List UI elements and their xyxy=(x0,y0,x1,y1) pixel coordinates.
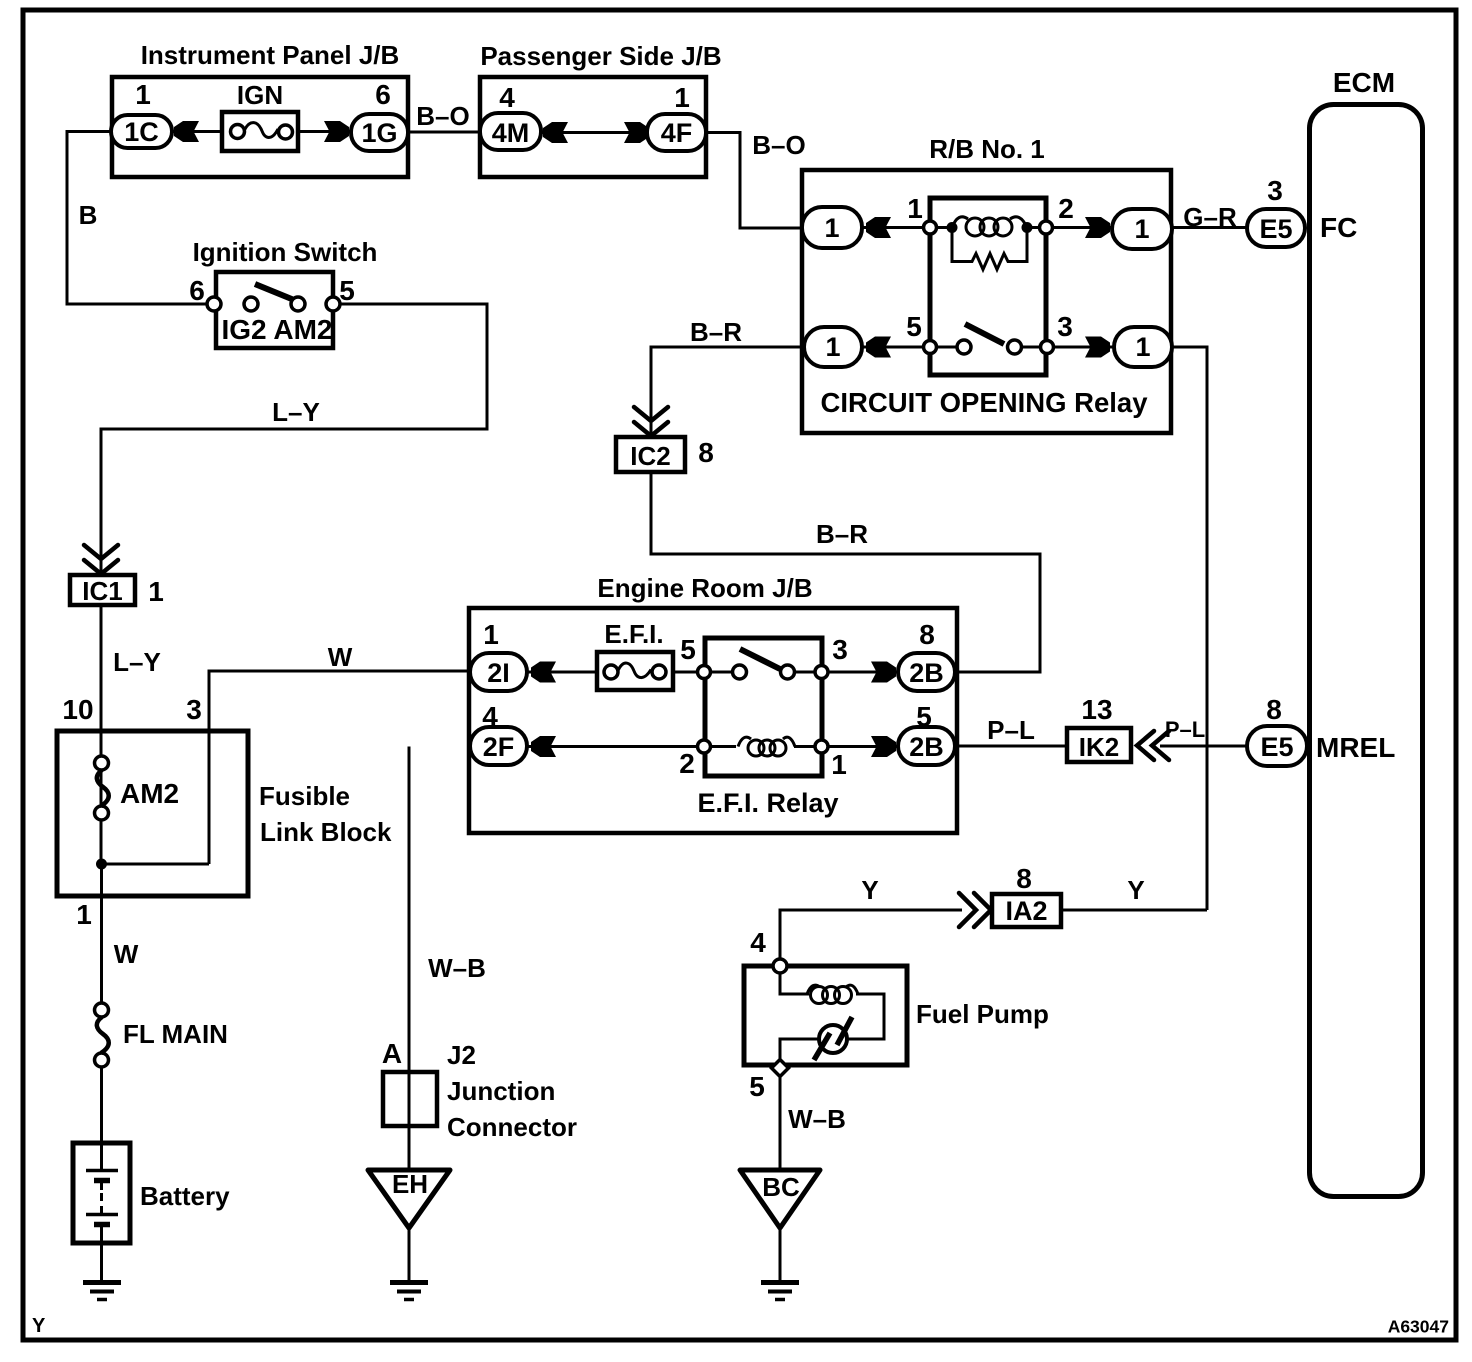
fuse IGN element xyxy=(231,125,245,139)
battery internal wire top xyxy=(100,1145,103,1169)
wire Y from IA2 to relay wire xyxy=(1061,909,1207,912)
arrow at 2B bottom xyxy=(871,736,896,757)
EFI relay node pin 1 xyxy=(815,740,828,753)
Passenger Side J/B box xyxy=(480,77,706,177)
junction connector J2 box xyxy=(383,1072,437,1126)
svg-text:2: 2 xyxy=(679,748,695,779)
svg-text:8: 8 xyxy=(919,619,935,650)
ground below battery xyxy=(83,1280,121,1285)
arrow at R/B bottom-right oval xyxy=(1085,337,1110,358)
relay node pin 2 xyxy=(1040,221,1053,234)
svg-text:4: 4 xyxy=(499,82,515,113)
arrow at 2I xyxy=(531,662,556,683)
relay switch wires xyxy=(936,346,957,349)
svg-text:IG2 AM2: IG2 AM2 xyxy=(222,314,333,345)
EFI relay coil wires xyxy=(711,745,736,748)
svg-text:Engine Room J/B: Engine Room J/B xyxy=(597,573,812,603)
fuel pump motor circle xyxy=(819,1025,847,1053)
svg-text:13: 13 xyxy=(1081,694,1112,725)
svg-text:4: 4 xyxy=(750,927,766,958)
arrow at 1C xyxy=(174,121,199,142)
svg-text:Junction: Junction xyxy=(447,1076,555,1106)
svg-text:Battery: Battery xyxy=(140,1181,230,1211)
svg-text:E5: E5 xyxy=(1259,214,1292,244)
connector IK2 box xyxy=(1067,728,1131,762)
connector 2I xyxy=(470,653,527,691)
connector oval R/B top-left xyxy=(802,207,862,248)
svg-text:J2: J2 xyxy=(447,1040,476,1070)
svg-text:B: B xyxy=(79,200,98,230)
arrow at 1G xyxy=(324,121,349,142)
wire B from 1C to ignition switch pin 6 xyxy=(67,132,210,305)
wire B-R from R/B bottom-left oval to IC2 xyxy=(651,347,804,437)
fuel pump pin 5 node diamond xyxy=(772,1060,789,1077)
relay coil wire xyxy=(936,226,948,229)
svg-text:E.F.I. Relay: E.F.I. Relay xyxy=(697,788,838,818)
wire EH to ground xyxy=(408,1228,411,1281)
svg-text:3: 3 xyxy=(186,694,202,725)
svg-text:L–Y: L–Y xyxy=(113,647,161,677)
fuel pump internal wire to coil xyxy=(780,972,809,994)
svg-text:B–R: B–R xyxy=(816,519,868,549)
svg-text:IGN: IGN xyxy=(237,80,283,110)
svg-text:W: W xyxy=(328,642,353,672)
battery center ticks xyxy=(100,1183,103,1190)
wire relay pin 3 to R/B bottom-right oval xyxy=(1047,346,1114,349)
svg-text:1C: 1C xyxy=(124,117,159,147)
ground below EH xyxy=(390,1280,428,1285)
svg-text:1: 1 xyxy=(483,619,499,650)
svg-text:1: 1 xyxy=(76,899,92,930)
fusible link FL MAIN symbol xyxy=(95,1003,109,1017)
svg-text:ECM: ECM xyxy=(1333,67,1395,98)
svg-text:E5: E5 xyxy=(1260,732,1293,762)
svg-text:A: A xyxy=(382,1038,402,1069)
arrow at 2B top xyxy=(871,662,896,683)
arrow at 4M xyxy=(543,122,568,143)
connector 2B bottom xyxy=(898,727,955,765)
EFI relay switch contacts xyxy=(733,665,747,679)
motor brush slash left xyxy=(814,1033,830,1060)
svg-text:P–L: P–L xyxy=(987,715,1035,745)
wire 4F to R/B No.1 left oval (B-O) xyxy=(704,133,804,229)
svg-text:P–L: P–L xyxy=(1165,717,1205,742)
fuel pump coil entry arcs xyxy=(807,985,820,994)
fuel pump coil loops xyxy=(811,987,828,1004)
battery wire to ground xyxy=(100,1227,103,1281)
relay coil loops xyxy=(966,218,984,236)
chevron connector left of IA2 xyxy=(959,893,976,927)
fusible link AM2 symbol xyxy=(95,756,109,770)
svg-text:1: 1 xyxy=(824,213,839,243)
svg-text:G–R: G–R xyxy=(1183,202,1237,232)
fuse E.F.I. element xyxy=(604,665,618,679)
Fusible Link Block box xyxy=(57,731,248,896)
svg-text:AM2: AM2 xyxy=(120,778,179,809)
svg-text:1: 1 xyxy=(907,193,923,224)
svg-text:Instrument Panel J/B: Instrument Panel J/B xyxy=(141,40,400,70)
connector E5 MREL xyxy=(1247,726,1307,766)
wire P-L from chevron to ECM E5 MREL xyxy=(1160,745,1249,748)
svg-text:2B: 2B xyxy=(909,658,944,688)
relay node pin 3 xyxy=(1041,341,1054,354)
wire EFI fuse to relay pin 5 xyxy=(671,671,704,674)
svg-text:10: 10 xyxy=(62,694,93,725)
svg-text:Passenger Side J/B: Passenger Side J/B xyxy=(480,41,721,71)
arrow at R/B bottom-left oval xyxy=(866,337,891,358)
connector 4M xyxy=(480,113,541,150)
connector oval R/B top-right xyxy=(1112,209,1172,249)
circuit opening relay inner box xyxy=(930,198,1046,375)
connector IC2 box xyxy=(616,437,685,472)
wire from R/B bottom-right oval down to fuel pump Y line xyxy=(1170,347,1207,910)
chevron connector above IC2 xyxy=(634,407,668,421)
connector oval R/B bottom-left xyxy=(804,327,862,367)
battery box xyxy=(73,1143,130,1243)
wire 1G to 4M (B-O) xyxy=(406,131,482,134)
chevron connector above IC1 xyxy=(84,545,118,559)
wire W-B from 2F to J2 and EH ground xyxy=(408,747,411,1171)
wire Y from fuel pump pin 4 to IA2 xyxy=(780,910,962,966)
wire from junction to pin 1 and FL MAIN xyxy=(100,864,103,1004)
fuel pump wire coil to motor xyxy=(847,994,884,1039)
svg-text:W–B: W–B xyxy=(788,1104,846,1134)
svg-text:1: 1 xyxy=(831,749,847,780)
wire 2I to EFI fuse xyxy=(525,671,599,674)
wire R/B bottom-left oval to relay pin 5 xyxy=(860,346,930,349)
svg-text:B–O: B–O xyxy=(416,101,469,131)
svg-text:Y: Y xyxy=(32,1315,46,1337)
svg-text:1: 1 xyxy=(135,79,151,110)
relay resistor branch xyxy=(952,232,1027,270)
fusible link AM2 wire xyxy=(100,757,103,864)
svg-text:3: 3 xyxy=(1267,175,1283,206)
ground below BC xyxy=(761,1280,799,1285)
svg-text:E.F.I.: E.F.I. xyxy=(604,619,663,649)
wire L-Y from IC1 to fusible link block xyxy=(100,605,103,757)
svg-text:Fusible: Fusible xyxy=(259,781,350,811)
relay switch contacts xyxy=(957,340,971,354)
svg-text:IA2: IA2 xyxy=(1005,896,1047,926)
svg-text:B–R: B–R xyxy=(690,317,742,347)
svg-text:A63047: A63047 xyxy=(1388,1317,1449,1337)
svg-text:6: 6 xyxy=(189,275,205,306)
chevron connector right of IK2 xyxy=(1137,731,1154,760)
svg-text:2F: 2F xyxy=(483,732,515,762)
fuel pump box xyxy=(744,966,907,1065)
svg-text:FC: FC xyxy=(1320,212,1357,243)
EFI relay switch blade xyxy=(740,649,780,669)
svg-text:2B: 2B xyxy=(909,732,944,762)
svg-text:1: 1 xyxy=(825,332,840,362)
Engine Room J/B box xyxy=(469,608,957,833)
R/B No.1 box xyxy=(802,170,1171,433)
connector 4F xyxy=(647,114,706,151)
svg-text:8: 8 xyxy=(698,437,714,468)
wire W-B from fuel pump to BC ground xyxy=(779,1076,782,1170)
svg-text:IC2: IC2 xyxy=(630,441,670,471)
svg-text:IK2: IK2 xyxy=(1079,732,1119,762)
svg-text:1: 1 xyxy=(148,576,164,607)
wire B-R from IC2 down to engine room 2B xyxy=(651,472,1040,672)
wire FL MAIN to battery xyxy=(100,1067,103,1145)
svg-text:Link Block: Link Block xyxy=(260,817,392,847)
ground triangle BC xyxy=(740,1170,820,1228)
connector IA2 box xyxy=(992,894,1061,927)
svg-text:4F: 4F xyxy=(661,118,693,148)
arrow at 2F xyxy=(531,736,556,757)
svg-text:Y: Y xyxy=(1127,875,1144,905)
svg-text:CIRCUIT OPENING Relay: CIRCUIT OPENING Relay xyxy=(820,387,1148,418)
arrow at 4F xyxy=(624,122,649,143)
Ignition Switch box xyxy=(216,272,333,348)
svg-text:5: 5 xyxy=(339,275,355,306)
ground triangle EH xyxy=(368,1170,450,1228)
svg-text:5: 5 xyxy=(680,634,696,665)
svg-text:6: 6 xyxy=(375,79,391,110)
EFI relay coil entry arcs xyxy=(738,737,751,746)
relay node pin 5 xyxy=(924,341,937,354)
connector 1C xyxy=(111,115,172,148)
ignition switch contacts xyxy=(207,297,221,311)
EFI relay node pin 2 xyxy=(698,740,711,753)
svg-text:1: 1 xyxy=(674,82,690,113)
svg-text:W–B: W–B xyxy=(428,953,486,983)
wire BC to ground xyxy=(779,1228,782,1281)
battery plate short 1 xyxy=(94,1178,110,1184)
wire relay pin 1 to 2B bottom xyxy=(821,745,900,748)
connector 1G xyxy=(351,114,408,151)
relay switch blade xyxy=(965,324,1004,344)
wire relay pin 2 to R/B top-right oval xyxy=(1046,226,1114,229)
svg-text:3: 3 xyxy=(832,634,848,665)
fuse E.F.I. box xyxy=(597,652,673,690)
wire P-L from 2B bottom to IK2 xyxy=(953,745,1067,748)
connector IC1 box xyxy=(70,575,135,605)
wire 4M to 4F xyxy=(539,131,649,134)
battery plate short 2 xyxy=(94,1222,110,1228)
svg-text:BC: BC xyxy=(762,1172,800,1202)
fuel pump pin 4 node xyxy=(773,959,787,973)
junction dot right xyxy=(1022,222,1033,233)
EFI relay inner box xyxy=(705,638,822,776)
svg-text:FL MAIN: FL MAIN xyxy=(123,1019,228,1049)
svg-text:1: 1 xyxy=(1134,214,1149,244)
svg-text:5: 5 xyxy=(906,311,922,342)
svg-text:B–O: B–O xyxy=(752,130,805,160)
svg-text:L–Y: L–Y xyxy=(272,397,320,427)
svg-text:Fuel Pump: Fuel Pump xyxy=(916,999,1049,1029)
svg-text:1: 1 xyxy=(1135,332,1150,362)
wire R/B top-left oval to relay pin 1 xyxy=(860,226,930,229)
Instrument Panel J/B box xyxy=(112,77,408,177)
wire IGN fuse to 1G xyxy=(297,130,353,133)
fuel pump wire motor to pin 5 xyxy=(780,1039,819,1062)
fuse IGN box xyxy=(222,112,298,151)
EFI relay node pin 5 xyxy=(698,666,711,679)
svg-text:Connector: Connector xyxy=(447,1112,577,1142)
connector E5 FC xyxy=(1247,209,1305,247)
svg-text:3: 3 xyxy=(1057,311,1073,342)
svg-text:IC1: IC1 xyxy=(82,576,122,606)
ignition switch blade xyxy=(255,284,299,302)
svg-text:2I: 2I xyxy=(487,658,510,688)
svg-text:MREL: MREL xyxy=(1316,732,1395,763)
ECM box xyxy=(1310,105,1423,1197)
svg-text:Ignition Switch: Ignition Switch xyxy=(193,237,378,267)
connector oval R/B bottom-right xyxy=(1114,327,1172,367)
svg-text:5: 5 xyxy=(749,1071,765,1102)
connector 2B top xyxy=(898,653,955,691)
wire from junction dot to pin 3 branch xyxy=(102,863,210,866)
EFI relay coil loops xyxy=(748,740,764,756)
junction dot left xyxy=(947,222,958,233)
svg-text:1G: 1G xyxy=(361,118,397,148)
wire G-R from R/B to ECM pin E5 xyxy=(1170,226,1249,229)
relay node pin 1 xyxy=(924,221,937,234)
wire W from fusible link block to 2I xyxy=(209,671,472,864)
wire relay pin 3 to 2B top xyxy=(821,671,900,674)
arrow at R/B top-right oval xyxy=(1085,217,1110,238)
svg-text:8: 8 xyxy=(1016,863,1032,894)
svg-text:EH: EH xyxy=(392,1169,428,1199)
connector 2F xyxy=(470,727,527,765)
wire 1C to IGN fuse xyxy=(170,130,224,133)
svg-text:R/B No. 1: R/B No. 1 xyxy=(929,134,1045,164)
EFI relay switch wires xyxy=(711,671,733,674)
svg-text:4M: 4M xyxy=(492,118,530,148)
motor brush slash right xyxy=(837,1017,852,1045)
wire 2F to relay pin 2 xyxy=(525,745,704,748)
battery plate long 1 xyxy=(86,1169,118,1173)
junction dot in fusible link block xyxy=(96,859,107,870)
battery plate long 2 xyxy=(86,1213,118,1217)
wire L-Y from ignition pin5 to IC1 xyxy=(101,304,487,577)
svg-text:8: 8 xyxy=(1266,694,1282,725)
svg-text:W: W xyxy=(114,939,139,969)
relay coil entry arcs xyxy=(952,217,968,228)
svg-text:2: 2 xyxy=(1058,193,1074,224)
EFI relay node pin 3 xyxy=(815,666,828,679)
svg-text:Y: Y xyxy=(861,875,878,905)
arrow at R/B top-left oval xyxy=(866,217,891,238)
